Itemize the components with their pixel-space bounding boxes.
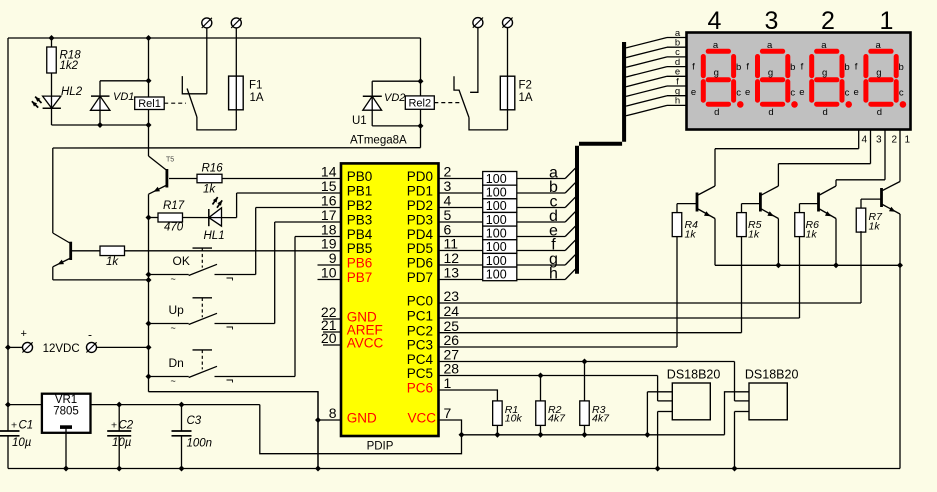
svg-text:+: + [11,419,17,431]
svg-text:R16: R16 [202,162,224,174]
svg-text:~: ~ [171,323,176,333]
svg-text:d: d [823,107,828,118]
svg-text:PC3: PC3 [407,338,433,353]
svg-text:DS18B20: DS18B20 [745,367,799,381]
svg-text:13: 13 [444,265,460,281]
svg-text:g: g [714,68,719,79]
svg-text:e: e [745,87,750,98]
svg-text:100: 100 [486,240,507,254]
svg-text:2: 2 [892,134,898,145]
svg-text:OK: OK [173,254,190,268]
svg-text:7: 7 [444,405,452,421]
svg-text:PB5: PB5 [347,241,373,256]
svg-text:1k: 1k [806,229,818,241]
svg-text:PD0: PD0 [407,169,433,184]
svg-text:23: 23 [444,288,460,304]
svg-text:d: d [877,107,882,118]
svg-text:e: e [691,87,696,98]
svg-text:F1: F1 [249,79,262,91]
svg-text:f: f [746,62,749,73]
svg-text:HL2: HL2 [61,86,83,98]
svg-text:3: 3 [765,7,779,35]
svg-text:PB2: PB2 [347,198,373,213]
svg-text:GND: GND [347,411,377,426]
svg-text:T5: T5 [166,157,174,164]
svg-text:VD2: VD2 [384,92,405,104]
svg-text:PC2: PC2 [407,323,433,338]
svg-text:PB6: PB6 [347,256,373,271]
svg-text:1k: 1k [203,184,216,196]
svg-text:Up: Up [169,303,185,317]
svg-text:-: - [88,328,92,342]
svg-text:b: b [844,62,849,73]
svg-text:PD7: PD7 [407,270,433,285]
svg-text:h: h [675,96,680,107]
svg-text:+: + [111,419,117,431]
svg-text:VR1: VR1 [55,394,77,406]
svg-text:c: c [845,87,850,98]
svg-text:h: h [549,265,558,282]
svg-text:1k: 1k [106,256,119,268]
svg-text:ATmega8A: ATmega8A [350,135,407,147]
svg-text:e: e [799,87,804,98]
svg-text:100: 100 [486,186,507,200]
svg-text:PD2: PD2 [407,198,433,213]
svg-text:2: 2 [821,7,835,35]
svg-text:F2: F2 [519,80,532,92]
svg-text:DS18B20: DS18B20 [667,367,721,381]
svg-text:f: f [801,62,804,73]
svg-text:100: 100 [486,254,507,268]
svg-text:g: g [876,68,881,79]
svg-text:~: ~ [171,376,176,386]
svg-text:PD1: PD1 [407,184,433,199]
svg-text:1k: 1k [748,229,760,241]
svg-text:1A: 1A [250,92,264,104]
svg-text:470: 470 [164,222,184,234]
svg-text:g: g [822,68,827,79]
svg-text:1: 1 [444,375,452,391]
svg-text:12VDC: 12VDC [43,343,80,355]
svg-text:24: 24 [444,303,460,319]
svg-text:100: 100 [486,227,507,241]
svg-text:c: c [790,87,795,98]
svg-text:C1: C1 [19,419,34,431]
svg-text:C2: C2 [119,419,134,431]
svg-text:PD6: PD6 [407,256,433,271]
svg-text:3: 3 [876,134,882,145]
svg-text:100: 100 [486,213,507,227]
svg-text:d: d [714,107,719,118]
svg-text:4: 4 [708,7,722,35]
svg-text:c: c [736,87,741,98]
svg-text:R17: R17 [163,200,185,212]
svg-text:PB4: PB4 [347,227,373,242]
svg-text:b: b [899,62,904,73]
svg-text:1k: 1k [869,220,881,232]
svg-text:VCC: VCC [407,411,436,426]
svg-text:4k7: 4k7 [592,412,610,424]
svg-text:PC1: PC1 [407,309,433,324]
svg-text:1A: 1A [519,92,533,104]
svg-text:1: 1 [880,7,894,35]
svg-text:PD4: PD4 [407,227,434,242]
svg-text:1k: 1k [685,229,697,241]
svg-text:AVCC: AVCC [347,336,384,351]
svg-text:7805: 7805 [53,406,79,418]
svg-text:4k7: 4k7 [548,412,566,424]
svg-text:10: 10 [321,265,337,281]
svg-text:PB7: PB7 [347,270,373,285]
svg-text:PD5: PD5 [407,241,433,256]
svg-text:PDIP: PDIP [367,440,394,452]
svg-text:100: 100 [486,199,507,213]
svg-text:1: 1 [905,134,911,145]
svg-text:~: ~ [171,274,176,284]
svg-text:8: 8 [329,405,337,421]
svg-text:10µ: 10µ [112,437,132,449]
svg-text:VD1: VD1 [113,91,134,103]
svg-text:1k2: 1k2 [60,60,79,72]
svg-text:HL1: HL1 [204,230,225,242]
svg-text:a: a [767,40,773,51]
svg-text:PC5: PC5 [407,366,433,381]
svg-text:4: 4 [862,134,868,145]
svg-text:100: 100 [486,172,507,186]
svg-text:PB0: PB0 [347,169,373,184]
svg-text:PC6: PC6 [407,381,433,396]
svg-text:Rel2: Rel2 [408,97,431,109]
svg-text:Dn: Dn [169,356,184,370]
svg-text:C3: C3 [187,415,202,427]
svg-text:100n: 100n [187,438,213,450]
svg-text:a: a [821,40,827,51]
svg-text:PB3: PB3 [347,213,373,228]
svg-text:b: b [736,62,741,73]
svg-text:PD3: PD3 [407,213,433,228]
svg-text:g: g [768,68,773,79]
svg-text:PC0: PC0 [407,294,433,309]
svg-text:e: e [853,87,858,98]
svg-text:+: + [21,328,27,340]
svg-text:100: 100 [486,267,507,281]
svg-text:a: a [713,40,719,51]
svg-text:d: d [768,107,773,118]
svg-text:f: f [855,62,858,73]
svg-text:10k: 10k [505,412,523,424]
svg-text:a: a [875,40,881,51]
svg-text:PB1: PB1 [347,184,373,199]
svg-text:Rel1: Rel1 [138,98,161,110]
svg-text:PC4: PC4 [407,352,434,367]
svg-text:U1: U1 [352,115,367,127]
svg-text:c: c [899,87,904,98]
svg-text:10µ: 10µ [12,437,32,449]
svg-text:f: f [692,62,695,73]
svg-text:b: b [790,62,795,73]
